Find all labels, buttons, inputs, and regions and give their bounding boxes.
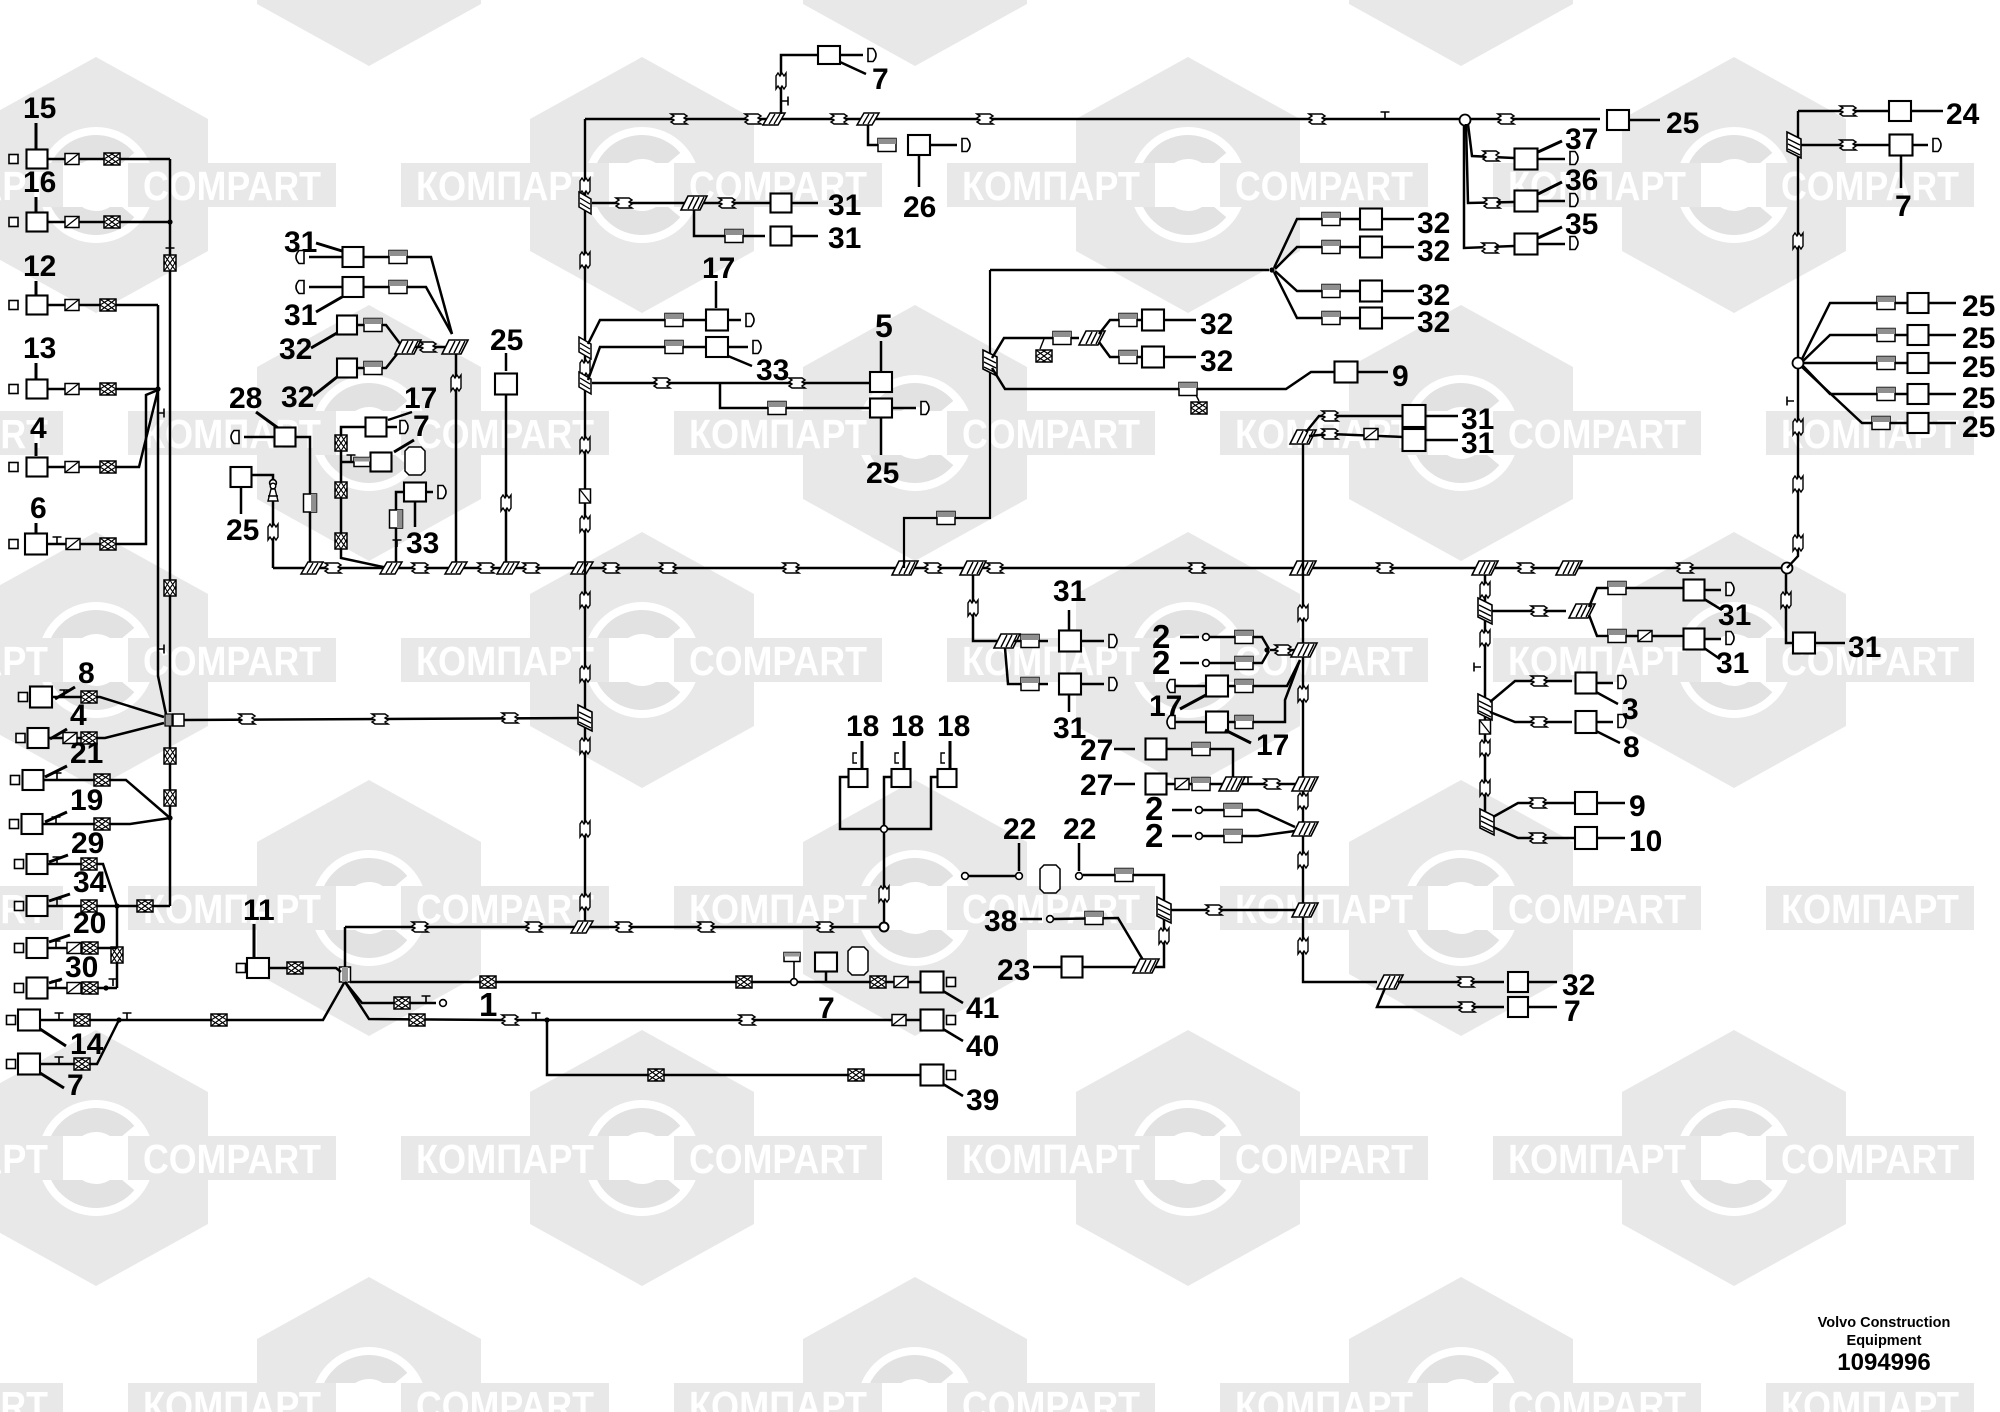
inline coil (789, 378, 805, 388)
svg-text:31: 31 (1718, 599, 1751, 632)
splice (1290, 430, 1316, 444)
wire (825, 971, 828, 982)
wire (880, 417, 883, 455)
inline coil (478, 563, 494, 573)
wire (1210, 651, 1269, 663)
wire (1099, 342, 1142, 357)
splice (1290, 561, 1316, 575)
svg-text:КОМПАРТ: КОМПАРТ (0, 1136, 48, 1182)
inline coil (501, 495, 511, 511)
svg-text:32: 32 (1417, 306, 1450, 339)
inline coil (67, 943, 81, 954)
pin square 6 (9, 540, 18, 549)
inline coil (1530, 798, 1546, 808)
svg-text:25: 25 (1962, 290, 1995, 323)
inline coil (1053, 332, 1071, 345)
inline coil (65, 384, 79, 395)
wire (48, 905, 171, 908)
inline coil (82, 982, 98, 994)
wire (316, 243, 342, 251)
tap tick (60, 690, 69, 697)
terminal cap (921, 402, 929, 415)
terminal cap (868, 49, 876, 62)
inline coil (1677, 563, 1693, 573)
inline coil (580, 894, 590, 910)
terminal cap (1570, 237, 1578, 250)
inline coil (1480, 740, 1490, 756)
connector 17 (706, 310, 728, 331)
wire (240, 487, 243, 514)
inline coil (580, 252, 590, 268)
svg-text:7: 7 (67, 1069, 84, 1102)
wire (269, 968, 341, 972)
splice (1787, 132, 1801, 158)
svg-text:10: 10 (1629, 825, 1662, 858)
wire (1171, 909, 1296, 912)
svg-text:17: 17 (1149, 690, 1182, 723)
splice (1292, 777, 1318, 791)
inline coil (1179, 383, 1197, 396)
wire (455, 354, 458, 568)
inline coil (1793, 535, 1803, 551)
junction pin (881, 826, 888, 833)
wire (1167, 749, 1234, 784)
inline coil (63, 733, 77, 744)
connector 19 (22, 814, 43, 834)
inline coil (580, 516, 590, 532)
inline coil (81, 858, 97, 870)
svg-text:32: 32 (1417, 235, 1450, 268)
inline coil (1877, 297, 1895, 310)
wire (1081, 683, 1104, 686)
inline coil (389, 251, 407, 264)
inline coil (745, 114, 761, 124)
wire (387, 426, 398, 429)
pin bracket (853, 753, 857, 763)
inline coil (1484, 198, 1500, 208)
wire (40, 983, 344, 1020)
connector 26 (908, 135, 930, 155)
wire (1382, 290, 1414, 293)
connector 13 (27, 380, 48, 399)
svg-text:COMPART: COMPART (1235, 1136, 1413, 1182)
wire (992, 368, 1334, 389)
inline coil (137, 900, 153, 912)
junction node (1793, 358, 1804, 369)
connector 5 (870, 372, 892, 392)
connector 33 (404, 483, 426, 502)
inline coil (1781, 592, 1791, 608)
wire (1068, 695, 1071, 712)
terminal cap (1933, 139, 1941, 152)
inline coil (65, 300, 79, 311)
inline coil (968, 600, 978, 616)
inline coil (65, 217, 79, 228)
inline coil (580, 178, 590, 194)
wire (1490, 681, 1572, 702)
wire (1228, 660, 1300, 686)
inline coil (1793, 233, 1803, 249)
terminal cap (438, 486, 446, 499)
wire (50, 729, 67, 739)
connector 10 (1575, 827, 1597, 849)
wire (1358, 371, 1389, 374)
wire (296, 437, 311, 568)
pin square 15 (9, 155, 18, 164)
wire (990, 269, 1269, 272)
svg-text:27: 27 (1080, 769, 1113, 802)
wire (1802, 303, 1908, 359)
wire (48, 864, 118, 906)
splice (763, 113, 785, 125)
connector 31 (1684, 580, 1705, 601)
wire (1210, 637, 1269, 649)
inline coil (1638, 631, 1652, 642)
wire (48, 987, 118, 990)
inline coil (211, 1014, 227, 1026)
svg-text:7: 7 (1564, 995, 1581, 1028)
svg-text:25: 25 (1962, 411, 1995, 444)
inline coil (409, 1014, 425, 1026)
wire (35, 281, 38, 295)
pin square 30 (15, 984, 24, 993)
wire (309, 286, 343, 289)
wire (880, 341, 883, 371)
wire (1589, 615, 1683, 636)
splice (1292, 903, 1318, 917)
svg-text:25: 25 (1666, 107, 1699, 140)
svg-text:КОМПАРТ: КОМПАРТ (416, 638, 594, 684)
inline coil (335, 482, 347, 498)
svg-text:25: 25 (490, 324, 523, 357)
inline coil (776, 73, 786, 89)
inline coil (287, 962, 303, 974)
connector 32 (1360, 237, 1382, 258)
inline coil (1175, 779, 1189, 790)
splice (395, 340, 421, 354)
inline coil (1085, 912, 1103, 925)
inline coil (817, 922, 833, 932)
tap tick (52, 981, 61, 988)
inline coil (892, 1015, 906, 1026)
inline coil (1192, 778, 1210, 791)
connector 20 (27, 938, 48, 958)
tap tick (157, 645, 164, 654)
connector 4 (28, 728, 49, 748)
wire main bus (273, 567, 1786, 569)
connector 18 (849, 769, 868, 787)
relay outline (1040, 865, 1060, 893)
pin circle (1196, 807, 1203, 814)
wire bus A (169, 159, 172, 712)
inline coil (1793, 476, 1803, 492)
wire (1705, 638, 1722, 641)
inline coil (66, 539, 80, 550)
pin bracket (941, 753, 945, 763)
wire (1597, 682, 1614, 685)
inline coil (1119, 314, 1137, 327)
wire (1538, 182, 1562, 194)
wire (1275, 247, 1361, 269)
junction dot (167, 815, 172, 820)
connector 31 (771, 194, 792, 213)
wire (1704, 599, 1722, 610)
inline coil (1518, 563, 1534, 573)
pin circle (1076, 873, 1083, 880)
inline coil (526, 922, 542, 932)
svg-text:15: 15 (23, 92, 56, 125)
wire (1274, 272, 1361, 318)
wire (592, 202, 771, 205)
wire (588, 320, 706, 344)
wire (840, 54, 863, 57)
pin square 12 (9, 301, 18, 310)
wire (1018, 843, 1021, 871)
connector 25 (870, 399, 892, 418)
svg-text:25: 25 (1962, 351, 1995, 384)
svg-text:25: 25 (866, 457, 899, 490)
relay outline (405, 447, 425, 475)
wire (52, 697, 164, 717)
inline coil (502, 713, 518, 723)
wire (1228, 660, 1300, 722)
tap tick (53, 899, 62, 906)
svg-text:КОМПАРТ: КОМПАРТ (1508, 1136, 1686, 1182)
inline coil (660, 563, 676, 573)
connector 31 (1684, 629, 1705, 650)
connector 39 (921, 1065, 944, 1086)
wire (1382, 218, 1414, 221)
connector 31 (343, 247, 364, 267)
inline coil (104, 216, 120, 228)
wire (1270, 649, 1295, 652)
splice (892, 561, 918, 575)
inline coil (1021, 678, 1039, 691)
terminal cap (400, 421, 408, 434)
inline coil (616, 922, 632, 932)
wire (1913, 144, 1929, 147)
svg-text:11: 11 (243, 894, 275, 927)
wire (728, 356, 752, 366)
inline coil (665, 314, 683, 327)
wire (992, 338, 1079, 358)
pin square 7 (7, 1060, 16, 1069)
connector 17 (1206, 712, 1228, 733)
inline coil (648, 1069, 664, 1081)
inline coil (1531, 676, 1547, 686)
wire (48, 304, 159, 307)
connector 16 (27, 213, 48, 232)
svg-text:39: 39 (966, 1084, 999, 1117)
wire (694, 210, 765, 236)
inline coil (768, 402, 786, 415)
splice (301, 562, 323, 574)
wire (1382, 246, 1414, 249)
wire (1203, 831, 1295, 836)
inline coil (412, 563, 428, 573)
svg-text:41: 41 (966, 992, 999, 1025)
connector 32 (1508, 972, 1528, 992)
wire (388, 412, 412, 420)
svg-text:9: 9 (1629, 790, 1646, 823)
wire (341, 461, 371, 464)
inline coil (65, 154, 79, 165)
wire (40, 1073, 64, 1088)
connector 17 (366, 418, 387, 437)
connector 8 (1576, 711, 1597, 733)
wire (1929, 302, 1957, 305)
inline coil (394, 997, 410, 1009)
wire (350, 981, 920, 984)
ring node (880, 923, 889, 932)
connector 4 (27, 458, 48, 477)
pin circle (1203, 660, 1210, 667)
inline coil (1322, 241, 1340, 254)
hanging coil (1191, 402, 1207, 414)
svg-text:КОМПАРТ: КОМПАРТ (962, 163, 1140, 209)
tap tick (52, 941, 61, 948)
inline coil (390, 510, 403, 528)
wire (344, 927, 347, 968)
wire (728, 346, 748, 349)
wire (396, 492, 404, 568)
wire (1203, 810, 1295, 827)
inline coil (100, 299, 116, 311)
wire main feed (184, 718, 585, 720)
connector 32 (1360, 209, 1382, 230)
pin circle (440, 1000, 447, 1007)
inline coil (1322, 285, 1340, 298)
connector 25 (231, 467, 252, 487)
inline coil (870, 976, 886, 988)
svg-text:33: 33 (406, 527, 439, 560)
junction dot (114, 903, 119, 908)
wire (1078, 843, 1081, 871)
wire (345, 982, 436, 1003)
splice (442, 340, 468, 354)
svg-text:13: 13 (23, 332, 56, 365)
svg-text:17: 17 (1256, 729, 1289, 762)
wire (1629, 119, 1660, 122)
svg-text:COMPART: COMPART (0, 1383, 48, 1412)
wire (1164, 319, 1196, 322)
connector 12 (27, 296, 48, 315)
tap tick (55, 1057, 64, 1064)
inline coil (831, 114, 847, 124)
wire (49, 979, 62, 983)
wire (1538, 227, 1562, 238)
splice (380, 562, 402, 574)
pin square 29 (15, 860, 24, 869)
wire (1589, 588, 1683, 607)
inline coil (111, 947, 123, 963)
inline coil (1480, 720, 1491, 734)
tap tick (55, 1013, 64, 1020)
svg-text:24: 24 (1946, 98, 1980, 131)
pin square 21 (11, 776, 20, 785)
pin circle (270, 480, 277, 487)
svg-text:31: 31 (284, 299, 317, 332)
wire (1597, 837, 1625, 840)
inline coil (1377, 563, 1393, 573)
inline coil (65, 462, 79, 473)
inline coil (164, 748, 176, 764)
wire (1274, 219, 1361, 268)
switch contact (784, 953, 800, 962)
wire (1929, 334, 1957, 337)
wire (47, 390, 158, 544)
wire (1426, 439, 1459, 442)
wire (1196, 395, 1199, 401)
wire (1492, 610, 1566, 613)
pin square 14 (7, 1016, 16, 1025)
wire (1705, 589, 1722, 592)
svg-text:20: 20 (73, 907, 106, 940)
connector 37 (1515, 149, 1538, 170)
wire (1180, 636, 1199, 639)
pin circle (1047, 916, 1054, 923)
connector 28 (275, 428, 296, 447)
wire (49, 723, 165, 738)
inline coil (580, 360, 590, 376)
wire (40, 1020, 119, 1064)
wire (1596, 692, 1618, 704)
wire (1014, 640, 1048, 643)
connector 31 (1059, 674, 1081, 695)
inline coil (100, 383, 116, 395)
tap tick (1381, 112, 1390, 119)
inline coil (925, 563, 941, 573)
wire (1114, 783, 1135, 786)
terminal cap (962, 139, 970, 152)
connector 32 (337, 359, 357, 378)
connector 36 (1515, 191, 1538, 212)
inline coil (580, 489, 591, 503)
inline coil (1119, 351, 1137, 364)
inline coil (1159, 928, 1169, 944)
svg-text:31: 31 (1461, 427, 1494, 460)
inline coil (1531, 717, 1547, 727)
connector 32 (1142, 347, 1164, 368)
connector 25 (1607, 110, 1629, 130)
inline coil (335, 533, 347, 549)
wire (244, 436, 274, 439)
terminal cap (1726, 583, 1734, 596)
svg-text:4: 4 (30, 412, 47, 445)
wire (1900, 156, 1903, 188)
connector 32 (337, 316, 357, 335)
wire (973, 575, 1000, 641)
junction node (1460, 115, 1471, 126)
tap tick (781, 97, 788, 106)
inline coil (1483, 151, 1499, 161)
wire (1538, 243, 1566, 246)
svg-text:34: 34 (73, 866, 107, 899)
inline coil (1235, 680, 1253, 693)
wire (1180, 695, 1206, 709)
wire (1803, 335, 1908, 361)
inline coil (977, 114, 993, 124)
wire (1114, 748, 1135, 751)
connector 31 (771, 227, 792, 246)
splice (1219, 777, 1245, 791)
svg-text:28: 28 (229, 382, 262, 415)
wire (720, 383, 870, 408)
wire (793, 962, 795, 978)
pin circle (791, 979, 798, 986)
connector 31 (1403, 429, 1426, 451)
wire (1175, 685, 1206, 688)
